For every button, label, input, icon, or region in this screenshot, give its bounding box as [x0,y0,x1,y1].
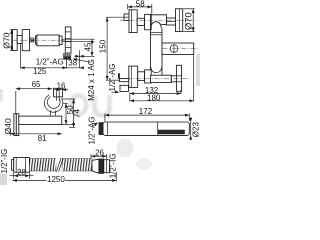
svg-text:1/2”-AG: 1/2”-AG [36,58,64,67]
text 1250 [47,176,66,183]
dim Ø70 (right) ticks [183,8,195,10]
dim 26 line [91,155,107,157]
body column sides [150,28,152,76]
holder stem [50,111,52,117]
dim 150 ext top [106,16,124,18]
bottom wall flange [176,65,181,91]
top union pipe [151,15,167,28]
dim 172 line [105,114,189,116]
svg-text:81: 81 [38,134,47,143]
top handle knob [129,10,137,33]
watermark left edge tick [0,89,3,101]
top elbow block [145,14,152,29]
flange neck [17,36,22,44]
watermark blob lower-center [117,139,134,158]
dim 74 line [73,99,75,127]
mid branch bar [162,43,194,54]
svg-text:172: 172 [139,107,153,116]
svg-text:74: 74 [72,109,81,118]
spout pipe [37,35,59,46]
hose nut body [14,158,30,173]
svg-text:Ø23: Ø23 [192,122,200,138]
centerline mid branch [163,48,199,50]
dim Ø70 (right) line [192,9,194,32]
dim 180 line [130,100,194,102]
hand shower body [103,122,189,135]
dim 1250 line [13,179,117,181]
dim 132/180 ext lines [129,92,131,101]
dim Ø70 extension ticks [10,29,13,31]
bottom union shaft [171,76,176,82]
bottom elbow block [145,70,152,83]
svg-text:Ø70: Ø70 [1,32,11,48]
dim 65 line [16,88,53,90]
svg-text:16: 16 [57,81,66,90]
dim 81 ext [9,128,11,136]
svg-text:58: 58 [136,0,145,8]
dim Ø70 line [11,30,13,51]
svg-text:M24 x 1 AG: M24 x 1 AG [87,59,96,101]
hose end cap [104,160,110,173]
watermark right edge strip [196,54,200,86]
dim Ø23 line [190,118,192,141]
dim 28 line [10,175,34,177]
svg-text:Ø70: Ø70 [183,12,194,30]
svg-text:65: 65 [32,80,41,89]
hose end cone [92,159,99,173]
dim 74 ext [62,98,76,100]
bracket wall plate [14,114,16,136]
svg-text:1/2”-AG: 1/2”-AG [87,116,96,144]
outlet2 ext vertical line [79,50,81,68]
body nut box [30,38,34,42]
leader 1/2AG mixer [112,91,117,93]
bottom handle shaft to outlet [120,78,129,81]
bottom handle knob [129,66,138,87]
holder clamp [54,88,63,97]
column bottom dome [151,67,162,73]
hose break mark [56,158,62,172]
holder ring [44,95,62,112]
dim 150 ext bottom [106,79,119,81]
svg-text:38: 38 [68,59,77,68]
dim 50 ext [63,102,68,104]
leader 1/2AG shower [93,123,97,127]
dim 81 line [10,133,62,135]
dim 125/38 line [21,67,84,69]
bracket arm [19,116,62,124]
svg-text:Ø40: Ø40 [3,118,13,134]
centerline top row [120,19,196,21]
diverter knob lines [65,31,71,33]
top handle shaft [137,18,144,25]
hose corrugation [29,159,92,171]
wall flange [13,30,18,51]
dim 58 ext lines [127,4,129,9]
spray face [158,130,184,134]
svg-text:150: 150 [98,39,107,53]
dim 125/38 extension lines [19,44,21,69]
svg-text:1/2”-IG: 1/2”-IG [0,149,9,174]
watermark bottom-left corner [0,174,7,186]
top handle cap [124,14,129,21]
bottom outlet box [120,85,128,91]
watermark faint blob below shower [136,159,152,170]
dim 172 ext [104,114,106,122]
svg-text:1/2”-AG: 1/2”-AG [108,63,117,91]
hose end knurl [99,159,104,174]
svg-text:180: 180 [147,94,161,103]
centerline spout [13,39,72,41]
dim 16 line [54,89,68,91]
column lines [151,31,163,33]
svg-text:45: 45 [83,42,92,51]
inlet connector [99,123,103,135]
outlet2 ext horizontal line [75,55,95,57]
body join line [107,122,109,135]
top wall flange [176,9,183,32]
bottom union pipe [151,75,172,82]
aerator outlet M24 (hatched dark) [63,53,71,56]
connector [36,36,37,44]
outlet2 meeting arrows [75,55,79,58]
centerline bottom row [117,78,190,80]
dim 1250 ext [115,172,117,182]
dim 150 line [106,17,108,80]
svg-text:1250: 1250 [47,175,65,184]
leader M24 [74,59,91,62]
hose nut cap [12,160,14,171]
svg-text:26: 26 [95,148,104,157]
column top dome [151,22,162,28]
mid branch ball [170,45,178,53]
body seam [157,122,159,135]
dim 58 line [128,6,152,8]
watermark letter U [95,95,110,116]
dim 45 line [91,39,93,56]
svg-text:28: 28 [17,168,26,177]
spout body [22,30,29,51]
pipe collar [59,36,62,44]
svg-text:125: 125 [33,67,47,76]
dim 50 line [65,103,67,124]
watermark letter O [71,95,110,116]
diverter knob [65,27,71,53]
bottom handle shaft [138,72,145,81]
top union shaft [167,18,176,25]
outlet stub pipe right [62,38,95,40]
dim 65 ext line [15,91,17,113]
dim 132 line [130,93,181,95]
